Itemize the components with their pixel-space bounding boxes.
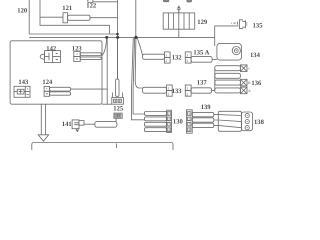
- svg-text:123: 123: [72, 46, 83, 53]
- svg-text:134: 134: [250, 52, 261, 59]
- svg-text:1: 1: [188, 112, 190, 116]
- svg-text:1: 1: [186, 54, 188, 58]
- svg-text:2: 2: [186, 92, 188, 96]
- svg-text:2: 2: [188, 117, 190, 121]
- svg-text:143: 143: [18, 79, 29, 86]
- svg-text:138: 138: [254, 119, 265, 126]
- svg-text:125: 125: [113, 106, 124, 113]
- svg-text:4: 4: [188, 128, 190, 132]
- svg-text:139: 139: [201, 104, 212, 111]
- svg-text:124: 124: [42, 79, 53, 86]
- svg-text:133: 133: [172, 88, 183, 95]
- svg-text:2: 2: [168, 117, 170, 121]
- svg-text:1: 1: [167, 87, 169, 91]
- svg-text:2: 2: [165, 59, 167, 63]
- svg-text:1: 1: [168, 112, 170, 116]
- svg-text:132: 132: [172, 55, 183, 62]
- svg-text:141: 141: [62, 121, 72, 128]
- svg-text:135 A: 135 A: [193, 50, 209, 57]
- svg-text:A: A: [248, 89, 251, 93]
- svg-text:122: 122: [86, 3, 97, 10]
- svg-text:1: 1: [165, 54, 167, 58]
- svg-text:120: 120: [17, 7, 28, 14]
- svg-text:2: 2: [186, 59, 188, 63]
- svg-text:142: 142: [46, 46, 57, 53]
- svg-text:135: 135: [253, 22, 264, 29]
- svg-text:121: 121: [62, 5, 72, 12]
- svg-text:129: 129: [197, 19, 208, 26]
- svg-text:3: 3: [168, 123, 170, 127]
- svg-text:2: 2: [167, 92, 169, 96]
- svg-text:130: 130: [173, 118, 184, 125]
- svg-text:4: 4: [168, 128, 170, 132]
- svg-text:137: 137: [197, 79, 208, 86]
- svg-text:136: 136: [251, 80, 262, 87]
- svg-text:1: 1: [186, 87, 188, 91]
- svg-text:3: 3: [188, 123, 190, 127]
